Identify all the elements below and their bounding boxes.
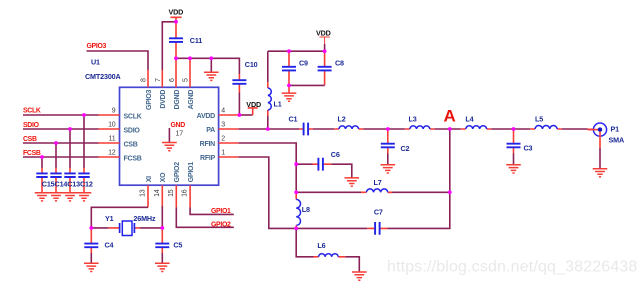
junction SDIO-C13 bbox=[68, 127, 72, 131]
ground C12 bbox=[77, 193, 92, 201]
inductor L5 bbox=[530, 115, 562, 130]
svg-text:GPIO2: GPIO2 bbox=[174, 162, 181, 183]
ground C3 bbox=[506, 165, 521, 173]
pin 12 stub bbox=[99, 156, 120, 158]
inductor L3 bbox=[405, 115, 435, 130]
svg-text:FCSB: FCSB bbox=[23, 150, 41, 157]
svg-text:XO: XO bbox=[160, 172, 167, 182]
wire C10 to AVDD bbox=[238, 93, 240, 116]
svg-text:C3: C3 bbox=[524, 144, 533, 153]
junction XO-Y1-C5 bbox=[160, 226, 164, 230]
junction CSB-C14 bbox=[54, 141, 58, 145]
wire VDD rail bbox=[268, 50, 325, 52]
capacitor C1 bbox=[289, 115, 314, 136]
wire XI bbox=[91, 207, 148, 228]
svg-text:5: 5 bbox=[183, 78, 190, 82]
svg-text:GPIO1: GPIO1 bbox=[211, 208, 231, 215]
junction AGND bus bbox=[188, 56, 192, 60]
ground GND pin17 inside U1 bbox=[162, 122, 185, 151]
svg-text:8: 8 bbox=[141, 78, 148, 82]
wire L2-L3 bbox=[364, 128, 405, 130]
junction VDD-DVDD bbox=[174, 20, 178, 24]
svg-text:C10: C10 bbox=[245, 60, 258, 69]
svg-text:15: 15 bbox=[168, 189, 175, 197]
svg-text:A: A bbox=[444, 106, 456, 125]
svg-text:6: 6 bbox=[169, 78, 176, 82]
svg-text:C7: C7 bbox=[374, 207, 383, 216]
svg-text:U1: U1 bbox=[91, 58, 100, 67]
svg-text:C5: C5 bbox=[173, 241, 182, 250]
junction RFIN-L7-L8 bbox=[294, 190, 298, 194]
svg-text:CMT2300A: CMT2300A bbox=[85, 72, 121, 81]
svg-text:C1: C1 bbox=[289, 115, 298, 124]
svg-text:GPIO3: GPIO3 bbox=[146, 89, 153, 110]
inductor L7 bbox=[361, 178, 392, 192]
svg-text:L2: L2 bbox=[338, 115, 346, 124]
svg-text:9: 9 bbox=[112, 108, 116, 115]
svg-text:SCLK: SCLK bbox=[124, 114, 142, 121]
svg-text:GPIO2: GPIO2 bbox=[211, 222, 231, 229]
inductor L2 bbox=[334, 115, 363, 130]
wire C1-L2 bbox=[313, 128, 334, 130]
junction rail-C8-VDD bbox=[323, 49, 327, 53]
wire SCLK bbox=[23, 114, 99, 116]
capacitor C9 bbox=[282, 51, 308, 85]
inductor L1 bbox=[268, 51, 282, 129]
capacitor C15 bbox=[36, 168, 47, 193]
svg-text:7: 7 bbox=[155, 78, 162, 82]
wire DVDD bbox=[162, 22, 176, 70]
svg-text:4: 4 bbox=[221, 108, 225, 115]
capacitor C2 bbox=[381, 129, 410, 165]
pin 2 stub RFIN bbox=[219, 142, 239, 144]
capacitor C5 bbox=[155, 228, 182, 263]
junction L4-C3 bbox=[512, 127, 516, 131]
svg-text:XI: XI bbox=[146, 176, 153, 182]
pin 3 stub PA bbox=[219, 128, 239, 130]
junction L7-Adrop bbox=[448, 190, 452, 194]
ground C2 bbox=[381, 165, 396, 173]
svg-text:C11: C11 bbox=[190, 36, 202, 45]
pin 4 stub AVDD bbox=[219, 114, 239, 116]
svg-text:CSB: CSB bbox=[124, 142, 138, 149]
power VDD top bbox=[169, 8, 184, 22]
svg-text:17: 17 bbox=[176, 131, 184, 138]
wire CSB bbox=[23, 142, 99, 144]
svg-text:C2: C2 bbox=[401, 144, 410, 153]
capacitor C13 bbox=[64, 168, 75, 193]
capacitor C11 bbox=[169, 22, 202, 59]
wire L4-L5 bbox=[491, 128, 530, 130]
svg-text:RFIN: RFIN bbox=[200, 141, 216, 148]
svg-text:10: 10 bbox=[108, 122, 116, 129]
wire L5-P1 bbox=[562, 128, 588, 130]
wire C14 drop bbox=[55, 143, 57, 168]
svg-text:L5: L5 bbox=[535, 115, 543, 124]
svg-text:16: 16 bbox=[182, 189, 189, 197]
ground C9 bbox=[282, 85, 297, 101]
svg-text:L6: L6 bbox=[317, 241, 325, 250]
svg-text:DVDD: DVDD bbox=[160, 90, 167, 109]
svg-text:https://blog.csdn.net/qq_38226: https://blog.csdn.net/qq_38226438 bbox=[387, 259, 637, 276]
ground L6 bbox=[352, 272, 367, 280]
svg-text:CSB: CSB bbox=[23, 136, 37, 143]
junction RFIN-C6 bbox=[294, 162, 298, 166]
junction rail-C9 bbox=[287, 49, 291, 53]
wire RFIN bbox=[239, 143, 297, 192]
crystal Y1 26MHz bbox=[91, 214, 162, 236]
svg-text:L1: L1 bbox=[274, 100, 282, 109]
ground P1 bbox=[593, 169, 608, 177]
pin 9 stub bbox=[99, 114, 120, 116]
pin 11 stub bbox=[99, 142, 120, 144]
inductor L6 bbox=[314, 241, 346, 257]
wire L6 to ground bbox=[345, 257, 359, 272]
junction XI-Y1-C4 bbox=[89, 226, 93, 230]
junction C11-DGND bus bbox=[174, 56, 178, 60]
svg-text:VDD: VDD bbox=[316, 28, 331, 37]
svg-text:13: 13 bbox=[140, 189, 147, 197]
pin 15 stub GPIO2 bbox=[175, 185, 177, 207]
svg-text:L7: L7 bbox=[374, 178, 382, 187]
capacitor C8 bbox=[318, 51, 344, 85]
svg-text:L8: L8 bbox=[302, 205, 310, 214]
capacitor C6 bbox=[296, 150, 352, 178]
svg-text:PA: PA bbox=[206, 127, 215, 134]
junction FCSB-C15 bbox=[40, 155, 44, 159]
wire A drop bbox=[387, 129, 450, 228]
svg-text:C8: C8 bbox=[335, 59, 344, 68]
wire ground bus bbox=[176, 58, 239, 74]
wire PA bbox=[239, 128, 299, 130]
junction PA-L1 bbox=[266, 127, 270, 131]
svg-text:L3: L3 bbox=[409, 115, 417, 124]
svg-text:L4: L4 bbox=[465, 115, 473, 124]
junction RFIP-L8-C7-L6 bbox=[294, 227, 298, 231]
wire P1 ground bbox=[599, 132, 601, 169]
wire C9-C8 bottom rail bbox=[289, 84, 325, 86]
ground C14 bbox=[49, 193, 64, 201]
svg-text:RFIP: RFIP bbox=[200, 155, 216, 162]
pin 6 stub DGND bbox=[175, 58, 177, 87]
pin 10 stub bbox=[99, 128, 120, 130]
svg-text:SDIO: SDIO bbox=[124, 128, 141, 135]
svg-text:P1: P1 bbox=[611, 124, 620, 133]
svg-text:12: 12 bbox=[108, 150, 116, 157]
svg-text:11: 11 bbox=[109, 136, 116, 143]
svg-text:14: 14 bbox=[154, 189, 161, 197]
svg-text:26MHz: 26MHz bbox=[133, 214, 156, 223]
wire L6 bbox=[296, 228, 313, 256]
ground C5 bbox=[155, 263, 170, 271]
svg-text:AVDD: AVDD bbox=[197, 113, 216, 120]
junction bus ground bbox=[209, 56, 213, 60]
wire L7 bbox=[296, 191, 450, 193]
svg-text:SMA: SMA bbox=[609, 136, 625, 145]
svg-text:C6: C6 bbox=[331, 150, 340, 159]
capacitor C4 bbox=[84, 228, 113, 263]
ground C15 bbox=[35, 193, 50, 201]
ground C6 bbox=[345, 178, 360, 186]
pin 16 stub GPIO1 bbox=[189, 185, 191, 207]
wire SDIO bbox=[23, 128, 99, 130]
svg-text:C9: C9 bbox=[299, 59, 308, 68]
svg-text:SCLK: SCLK bbox=[23, 108, 41, 115]
wire GPIO3 bbox=[87, 51, 149, 70]
capacitor C3 bbox=[507, 129, 533, 165]
capacitor C7 bbox=[296, 207, 387, 235]
wire GPIO1 bbox=[190, 207, 234, 214]
pin 1 stub RFIP bbox=[219, 156, 239, 158]
wire L3-A bbox=[435, 128, 461, 130]
svg-text:2: 2 bbox=[221, 136, 225, 143]
op-amp U1 CMT2300A body bbox=[120, 87, 219, 185]
junction L2-C2 bbox=[386, 127, 390, 131]
pin 13 stub XI bbox=[147, 185, 149, 207]
pin 8 stub bbox=[147, 70, 149, 87]
wire C12 drop bbox=[83, 115, 85, 168]
capacitor C14 bbox=[50, 168, 61, 193]
ground bus symbol bbox=[204, 58, 219, 80]
svg-text:GPIO1: GPIO1 bbox=[188, 162, 195, 183]
svg-text:3: 3 bbox=[221, 122, 225, 129]
junction AVDD-C10 bbox=[238, 113, 242, 117]
wire AVDD bbox=[239, 114, 253, 116]
svg-text:GND: GND bbox=[171, 122, 186, 129]
junction SCLK-C12 bbox=[82, 113, 86, 117]
inductor L8 bbox=[296, 192, 310, 228]
power VDD avdd bbox=[246, 100, 261, 115]
connector P1 SMA bbox=[588, 123, 625, 145]
pin 5 stub AGND bbox=[189, 58, 191, 87]
ground C4 bbox=[84, 263, 99, 271]
svg-text:Y1: Y1 bbox=[105, 214, 114, 223]
pin 7 stub bbox=[161, 70, 163, 87]
wire C13 drop bbox=[69, 129, 71, 168]
wire GPIO2 bbox=[176, 207, 234, 227]
svg-text:AGND: AGND bbox=[188, 90, 195, 110]
svg-text:1: 1 bbox=[221, 150, 225, 157]
junction C9-ground rail bbox=[287, 84, 291, 88]
wire FCSB bbox=[23, 156, 99, 158]
power VDD rail bbox=[316, 28, 331, 51]
svg-text:VDD: VDD bbox=[169, 8, 184, 17]
svg-text:SDIO: SDIO bbox=[23, 122, 40, 129]
wire RFIP bbox=[239, 157, 297, 228]
svg-text:GPIO3: GPIO3 bbox=[87, 43, 107, 50]
pin 14 stub XO bbox=[161, 185, 163, 206]
svg-text:FCSB: FCSB bbox=[124, 156, 142, 163]
wire XO bbox=[161, 206, 163, 228]
capacitor C10 bbox=[232, 60, 257, 93]
svg-text:C4: C4 bbox=[105, 241, 114, 250]
svg-text:C15C14C13C12: C15C14C13C12 bbox=[42, 179, 93, 188]
svg-text:DGND: DGND bbox=[174, 90, 181, 110]
wire C15 drop bbox=[41, 157, 43, 168]
inductor L4 bbox=[461, 115, 492, 130]
capacitor C12 bbox=[78, 168, 89, 193]
junction node A bbox=[448, 127, 452, 131]
ground C13 bbox=[63, 193, 78, 201]
